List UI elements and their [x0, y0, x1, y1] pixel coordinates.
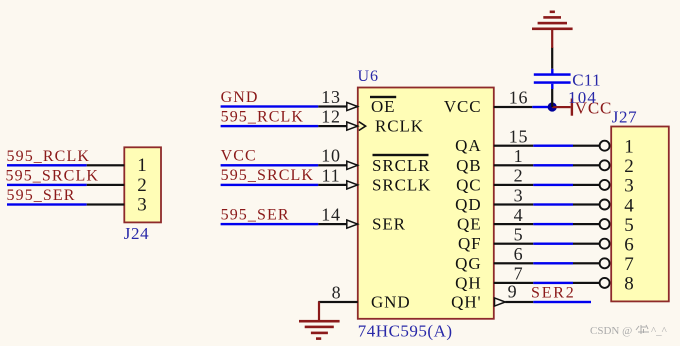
- svg-text:^_^: ^_^: [651, 325, 668, 337]
- svg-text:SRCLK: SRCLK: [372, 175, 431, 194]
- pin 4 QE wire to J27 pin 5: [494, 219, 610, 229]
- svg-text:VCC: VCC: [221, 148, 257, 165]
- svg-text:SER: SER: [372, 215, 406, 234]
- svg-text:6: 6: [514, 244, 524, 264]
- svg-text:12: 12: [321, 107, 341, 127]
- pin name SRCLR (with overline): [372, 154, 430, 175]
- pin 1 QB wire to J27 pin 2: [494, 160, 610, 170]
- ground symbol (top, inverted): [532, 11, 573, 49]
- watermark CSDN: [590, 325, 668, 337]
- svg-text:4: 4: [624, 195, 634, 216]
- pin 5 QF wire to J27 pin 6: [494, 239, 610, 249]
- svg-text:10: 10: [321, 146, 341, 166]
- svg-text:QG: QG: [455, 254, 481, 273]
- svg-text:QF: QF: [458, 234, 482, 253]
- svg-text:QH: QH: [455, 273, 481, 292]
- svg-text:1: 1: [137, 155, 147, 176]
- svg-text:6: 6: [624, 235, 634, 256]
- svg-text:QB: QB: [456, 156, 481, 175]
- svg-text:GND: GND: [221, 89, 259, 106]
- pin 12 RCLK (wire 595_RCLK): [221, 122, 366, 131]
- svg-text:3: 3: [137, 194, 147, 215]
- svg-text:9: 9: [508, 281, 518, 301]
- svg-text:3: 3: [624, 176, 634, 197]
- pin 6 QG wire to J27 pin 7: [494, 258, 610, 268]
- svg-text:C11: C11: [572, 71, 601, 90]
- pin 2 QC wire to J27 pin 3: [494, 180, 610, 190]
- svg-text:SER2: SER2: [531, 285, 576, 302]
- svg-text:14: 14: [321, 205, 341, 225]
- capacitor C11: [534, 47, 571, 107]
- svg-text:4: 4: [514, 205, 524, 225]
- svg-text:U6: U6: [358, 68, 380, 85]
- pin 3 QD wire to J27 pin 4: [494, 200, 610, 210]
- svg-text:16: 16: [509, 87, 529, 107]
- svg-text:1: 1: [514, 146, 524, 166]
- svg-text:J27: J27: [612, 108, 637, 127]
- svg-text:QA: QA: [455, 136, 481, 155]
- connector J24: [124, 147, 161, 222]
- svg-text:5: 5: [514, 225, 524, 245]
- svg-text:595_SRCLK: 595_SRCLK: [6, 168, 99, 185]
- svg-text:2: 2: [514, 166, 524, 186]
- svg-text:3: 3: [514, 185, 524, 205]
- pin 11 SRCLK (wire 595_SRCLK): [221, 181, 358, 189]
- svg-text:5: 5: [624, 215, 634, 236]
- junction dot: [548, 102, 557, 111]
- svg-text:SRCLR: SRCLR: [372, 156, 430, 175]
- svg-text:GND: GND: [371, 293, 411, 312]
- pin 7 QH wire to J27 pin 8: [494, 278, 610, 288]
- svg-text:OE: OE: [371, 97, 395, 116]
- svg-text:595_SER: 595_SER: [7, 187, 76, 204]
- svg-text:QE: QE: [457, 215, 481, 234]
- svg-text:QC: QC: [456, 175, 481, 194]
- svg-text:2: 2: [137, 175, 147, 196]
- ground symbol (bottom): [299, 302, 340, 340]
- pin name OE (with overline): [370, 96, 396, 116]
- svg-text:595_SER: 595_SER: [221, 206, 290, 223]
- svg-text:74HC595(A): 74HC595(A): [358, 322, 453, 341]
- svg-text:QH': QH': [451, 293, 481, 312]
- pin 9 QH' wire (net SER2): [495, 298, 592, 306]
- pin 8 GND wire: [318, 301, 358, 303]
- pin 10 SRCLR (wire VCC): [221, 161, 358, 169]
- svg-text:1: 1: [624, 137, 634, 158]
- svg-text:15: 15: [509, 127, 529, 147]
- svg-text:595_SRCLK: 595_SRCLK: [221, 167, 314, 184]
- svg-text:595_RCLK: 595_RCLK: [221, 108, 304, 125]
- svg-text:RCLK: RCLK: [375, 117, 424, 136]
- svg-text:8: 8: [332, 282, 342, 302]
- wire 595_SRCLK to J24 pin 2: [7, 184, 124, 186]
- svg-text:595_RCLK: 595_RCLK: [7, 148, 90, 165]
- power port VCC: [552, 99, 612, 118]
- svg-text:7: 7: [624, 254, 634, 275]
- pin 13 OE (wire GND): [221, 102, 358, 110]
- svg-text:8: 8: [624, 274, 634, 295]
- wire 595_SER to J24 pin 3: [7, 203, 124, 205]
- connector J27: [611, 127, 669, 302]
- op IC body U6 74HC595: [358, 88, 494, 319]
- svg-text:J24: J24: [124, 224, 149, 243]
- pin 16 VCC wire: [494, 106, 552, 108]
- svg-text:104: 104: [568, 88, 597, 107]
- pin 14 SER (wire 595_SER): [221, 220, 358, 228]
- svg-text:VCC: VCC: [444, 97, 482, 116]
- wire 595_RCLK to J24 pin 1: [7, 164, 124, 166]
- svg-text:13: 13: [321, 87, 341, 107]
- svg-text:QD: QD: [455, 195, 481, 214]
- pin 15 QA wire to J27 pin 1: [494, 141, 610, 151]
- svg-text:2: 2: [624, 156, 634, 177]
- svg-text:CSDN @: CSDN @: [590, 325, 632, 337]
- svg-text:11: 11: [322, 165, 341, 185]
